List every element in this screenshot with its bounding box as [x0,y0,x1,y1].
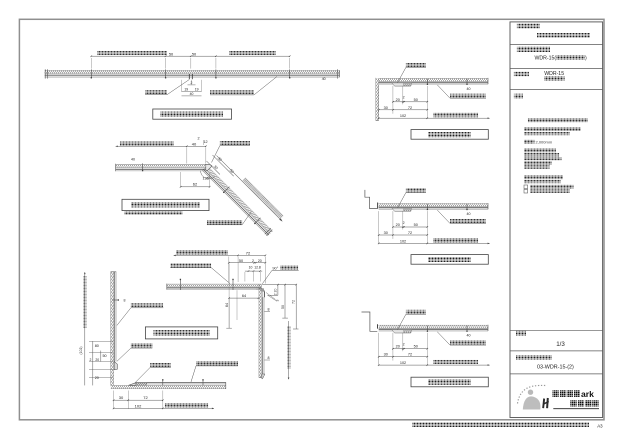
svg-text:20: 20 [396,223,400,227]
svg-text:20: 20 [396,98,400,102]
svg-text:2: 2 [403,96,405,100]
svg-text:40: 40 [131,158,135,162]
svg-text:102: 102 [400,239,406,243]
svg-text:2: 2 [197,137,199,141]
svg-text:40: 40 [467,87,471,91]
svg-text:2: 2 [90,358,92,362]
svg-text:102: 102 [400,114,406,118]
svg-text:ark: ark [581,389,594,399]
svg-text:40: 40 [322,77,326,81]
svg-text:(102): (102) [79,347,83,355]
svg-text:12: 12 [203,140,207,144]
svg-text:50: 50 [414,98,418,102]
svg-text:20: 20 [273,289,277,293]
svg-text:2: 2 [273,293,277,295]
svg-text:20: 20 [95,358,99,362]
svg-text:80: 80 [95,344,99,348]
svg-text:90°: 90° [272,266,278,271]
svg-text:72: 72 [246,250,251,255]
svg-text:2: 2 [191,81,193,85]
svg-text:72: 72 [408,353,412,357]
svg-text:12.8: 12.8 [254,265,261,269]
svg-text:03-WDR-15-(2): 03-WDR-15-(2) [537,364,574,370]
svg-text:40: 40 [467,334,471,338]
svg-text:102: 102 [135,403,142,408]
svg-text:72: 72 [408,106,412,110]
svg-text:8: 8 [268,356,270,360]
svg-text:72: 72 [292,300,296,304]
svg-text:30: 30 [384,106,388,110]
svg-text:30: 30 [119,395,124,400]
svg-text:WDR-15: WDR-15 [544,71,564,77]
svg-text:64: 64 [225,303,229,307]
svg-text:2: 2 [252,259,254,263]
svg-text:50: 50 [414,223,418,227]
svg-text:20: 20 [95,376,99,380]
svg-text:10: 10 [249,265,253,269]
svg-text:72: 72 [143,395,148,400]
svg-text:1/3: 1/3 [556,341,565,348]
svg-text:30: 30 [384,231,388,235]
svg-text:A3: A3 [597,423,603,428]
svg-text:19: 19 [184,88,188,92]
svg-text:62: 62 [193,182,198,187]
svg-text:20: 20 [396,345,400,349]
svg-text:20: 20 [258,259,262,263]
svg-text:102: 102 [400,361,406,365]
svg-text:50: 50 [239,259,243,263]
svg-text:8: 8 [268,307,270,311]
svg-text:64: 64 [242,294,246,298]
svg-text:40: 40 [192,141,197,146]
svg-text:40: 40 [190,92,194,96]
svg-text:WDR-15(: WDR-15( [535,55,557,61]
svg-text:40: 40 [467,212,471,216]
svg-text:): ) [585,55,587,61]
svg-text:50: 50 [102,354,106,358]
svg-text:2: 2 [403,221,405,225]
svg-text:50: 50 [414,345,418,349]
svg-text:30: 30 [384,353,388,357]
svg-text:2: 2 [403,343,405,347]
svg-text:19: 19 [195,88,199,92]
svg-text:72: 72 [408,231,412,235]
svg-text:8: 8 [124,299,126,303]
svg-text:50: 50 [281,305,285,309]
svg-text:2,000mm: 2,000mm [536,140,553,145]
